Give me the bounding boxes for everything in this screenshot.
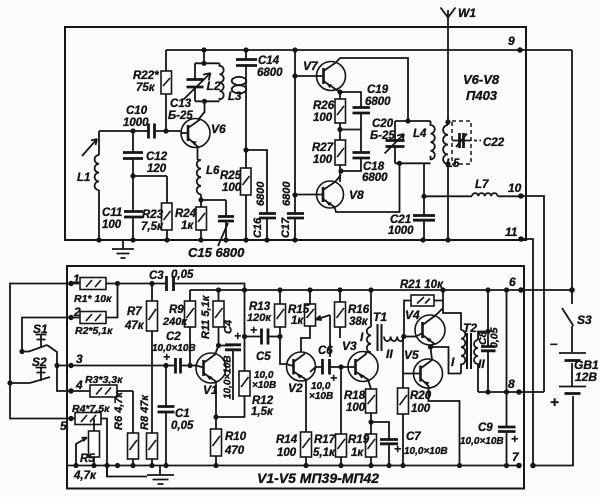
node dot R25 top bbox=[243, 147, 248, 152]
resistor R27 bbox=[335, 140, 346, 182]
svg-text:R11 5,1к: R11 5,1к bbox=[200, 294, 212, 339]
svg-text:6800: 6800 bbox=[365, 96, 391, 108]
capacitor C16 bbox=[246, 150, 276, 240]
svg-text:V3: V3 bbox=[342, 339, 357, 353]
svg-text:V5: V5 bbox=[404, 348, 419, 362]
svg-text:R22*: R22* bbox=[133, 70, 159, 82]
svg-text:10,0×10В: 10,0×10В bbox=[152, 343, 196, 354]
svg-text:R4*7,5к: R4*7,5к bbox=[72, 403, 110, 415]
svg-text:L3: L3 bbox=[228, 91, 242, 103]
node dot R7 top bbox=[149, 281, 154, 286]
svg-text:C11: C11 bbox=[102, 207, 122, 219]
svg-text:1,5к: 1,5к bbox=[251, 406, 274, 418]
capacitor C19 bbox=[340, 92, 370, 130]
capacitor C9 bbox=[498, 290, 516, 466]
capacitor C1 bbox=[158, 366, 175, 466]
svg-text:+: + bbox=[394, 442, 401, 456]
outer left rail bbox=[10, 284, 75, 419]
wire: node 10 down to node 8 bbox=[521, 196, 544, 392]
resistor R22 bbox=[161, 50, 172, 131]
svg-text:R5: R5 bbox=[80, 453, 95, 465]
transistor V4 bbox=[415, 313, 445, 347]
switch S3 bbox=[562, 290, 574, 352]
wire: terminal 2 to S1 column bbox=[22, 318, 71, 352]
AF unit enclosure box (bottom) bbox=[67, 266, 524, 489]
supply rail 6 (y=290) bbox=[190, 289, 521, 291]
svg-text:6800: 6800 bbox=[281, 181, 293, 206]
junction R11/rail 6 bbox=[216, 287, 221, 292]
node 7 bbox=[516, 463, 522, 469]
junction R20/rail 7 bbox=[400, 463, 405, 468]
resistor R6 bbox=[128, 433, 139, 466]
transistor V3 bbox=[348, 352, 378, 390]
svg-text:100: 100 bbox=[313, 154, 333, 166]
svg-text:120: 120 bbox=[147, 163, 167, 175]
svg-text:R24: R24 bbox=[175, 208, 197, 220]
svg-text:4: 4 bbox=[75, 378, 83, 392]
svg-text:0,05: 0,05 bbox=[171, 420, 194, 432]
node dot R27 bottom bbox=[338, 168, 343, 173]
node 8 bbox=[516, 389, 522, 395]
capacitor C22 (dashed) bbox=[452, 121, 481, 164]
junction rail 7 bbox=[115, 463, 120, 468]
transistor V6 bbox=[181, 119, 210, 161]
junction R13/rail 6 bbox=[277, 287, 282, 292]
wire: V7 collector to L4 tank top bbox=[340, 58, 408, 122]
svg-text:R27: R27 bbox=[312, 142, 334, 154]
svg-text:10,0×10В: 10,0×10В bbox=[460, 436, 504, 447]
wire: R4 to R5 and gnd link bbox=[101, 419, 107, 477]
junction R14/rail 7 bbox=[303, 463, 308, 468]
svg-text:1000: 1000 bbox=[388, 225, 414, 237]
node dot V1 collector / R11 bottom bbox=[216, 343, 221, 348]
node 11 bbox=[518, 236, 524, 242]
wire row 3 (input to V1 base) bbox=[57, 365, 196, 367]
junction R23/ground rail bbox=[164, 237, 169, 242]
wire: outer rail to S2 lever bbox=[10, 382, 30, 384]
svg-text:R23: R23 bbox=[142, 209, 164, 221]
node dot R9 bottom bbox=[187, 363, 192, 368]
junction C21/ground rail bbox=[420, 237, 425, 242]
svg-text:V8: V8 bbox=[349, 188, 364, 202]
svg-text:C19: C19 bbox=[367, 84, 389, 96]
transistor V7 bbox=[295, 58, 346, 92]
svg-text:C10: C10 bbox=[126, 105, 148, 117]
svg-text:C16: C16 bbox=[252, 217, 264, 238]
terminal dot 3 bbox=[68, 363, 73, 368]
node dot C12 bottom bbox=[130, 173, 135, 178]
svg-text:1к: 1к bbox=[351, 447, 364, 459]
junction C8/rail 6 bbox=[485, 287, 490, 292]
node dot 11-line on bottom rail bbox=[530, 463, 536, 469]
resistor R5 (trimmer) bbox=[76, 431, 100, 466]
svg-text:6800: 6800 bbox=[257, 67, 283, 79]
svg-text:1000: 1000 bbox=[123, 117, 149, 129]
svg-text:C13: C13 bbox=[170, 98, 192, 110]
svg-text:T1: T1 bbox=[373, 310, 387, 324]
node dot on rail at C17 bbox=[292, 47, 297, 52]
junction R10/rail 7 bbox=[213, 463, 218, 468]
svg-text:R19: R19 bbox=[348, 434, 370, 446]
junction C9/rail 7 bbox=[504, 463, 509, 468]
junction C15/ground rail bbox=[223, 237, 228, 242]
node dot V7 emitter bbox=[337, 89, 342, 94]
junction L1/ground rail bbox=[96, 237, 101, 242]
svg-text:T2: T2 bbox=[463, 321, 477, 335]
svg-text:V1-V5 МП39-МП42: V1-V5 МП39-МП42 bbox=[257, 470, 379, 486]
svg-text:470: 470 bbox=[224, 445, 245, 457]
node dot outer rail / S2 bbox=[7, 380, 12, 385]
ground symbol inside bottom box bbox=[107, 466, 174, 485]
node dot R1 right bbox=[115, 281, 120, 286]
svg-text:9: 9 bbox=[508, 34, 515, 48]
svg-text:–: – bbox=[550, 335, 558, 351]
svg-text:R25: R25 bbox=[220, 170, 242, 182]
wire: C10 / V6 base row y=131 bbox=[99, 130, 148, 132]
junction V5 emitter/rail 7 bbox=[457, 463, 462, 468]
node dot on rail at C14 bbox=[243, 47, 248, 52]
node dot V7 base bbox=[292, 73, 297, 78]
svg-text:100: 100 bbox=[313, 112, 333, 124]
junction L5/ground rail bbox=[445, 237, 450, 242]
svg-text:4,7к: 4,7к bbox=[73, 470, 97, 482]
capacitor C21 bbox=[413, 196, 435, 240]
svg-text:6800: 6800 bbox=[362, 172, 388, 184]
svg-text:C6: C6 bbox=[318, 345, 333, 357]
svg-text:0,05: 0,05 bbox=[489, 327, 501, 348]
svg-text:38к: 38к bbox=[349, 316, 369, 328]
svg-text:12В: 12В bbox=[575, 370, 597, 384]
svg-text:L7: L7 bbox=[475, 179, 489, 191]
svg-text:75к: 75к bbox=[136, 82, 156, 94]
svg-text:W1: W1 bbox=[458, 6, 476, 20]
inductor L1 with ferrite arrow bbox=[82, 131, 99, 240]
junction R24/ground rail bbox=[198, 237, 203, 242]
svg-text:11: 11 bbox=[505, 225, 518, 239]
svg-text:100: 100 bbox=[277, 447, 297, 459]
bottom ground rail (7) bbox=[67, 465, 519, 467]
capacitor C5 bbox=[245, 336, 262, 338]
transistor V1 bbox=[196, 346, 226, 418]
junction R15/rail 6 bbox=[307, 287, 312, 292]
inductor L6 bbox=[197, 160, 201, 200]
transistor V5 bbox=[414, 347, 460, 466]
inductor L3 bbox=[232, 75, 247, 150]
resistor R18 bbox=[366, 389, 377, 434]
svg-text:R6 4,7к: R6 4,7к bbox=[113, 391, 125, 430]
tank circuit L4 / C20 bbox=[385, 121, 435, 163]
capacitor C7 bbox=[371, 422, 398, 466]
terminal dot 5 bbox=[68, 416, 73, 421]
node dot C5 row left bbox=[242, 334, 247, 339]
transistor V8 bbox=[295, 163, 400, 212]
junction C9/rail 6 bbox=[504, 287, 509, 292]
battery GB1 bbox=[533, 353, 586, 466]
wire: top supply rail (9) y=50 bbox=[166, 49, 572, 51]
capacitor C18 bbox=[341, 130, 370, 172]
svg-text:10,0×10В: 10,0×10В bbox=[404, 446, 448, 457]
node dot on rail at L2 tank bbox=[201, 47, 206, 52]
resistor R19 bbox=[366, 434, 377, 466]
svg-text:C22: C22 bbox=[483, 137, 505, 149]
svg-text:R9: R9 bbox=[169, 304, 184, 316]
node dot L2 tank top bbox=[201, 61, 206, 66]
node dot T1 secondary bbox=[401, 334, 406, 339]
wire: S-block output column bbox=[47, 345, 71, 391]
svg-text:S1: S1 bbox=[33, 322, 48, 336]
wire: T1 II node to V5 base bbox=[403, 337, 414, 374]
svg-text:C1: C1 bbox=[175, 408, 190, 420]
node dot C8 bottom bbox=[485, 389, 490, 394]
svg-text:C12: C12 bbox=[146, 151, 168, 163]
node dot C10/C12/L1 bbox=[130, 128, 135, 133]
svg-text:1к: 1к bbox=[181, 220, 194, 232]
svg-text:R21 10к: R21 10к bbox=[400, 279, 444, 291]
junction R17/rail 7 bbox=[338, 463, 343, 468]
svg-text:R8 47к: R8 47к bbox=[139, 394, 151, 430]
svg-text:II: II bbox=[478, 357, 485, 371]
svg-text:R18: R18 bbox=[344, 390, 366, 402]
wire: L4 bottom to C21 bbox=[423, 163, 425, 196]
wire: input row 1 (R1/C3) y=283 bbox=[71, 284, 245, 291]
svg-text:П403: П403 bbox=[466, 88, 498, 103]
resistor R26 bbox=[335, 92, 346, 140]
junction T1 primary/rail 6 bbox=[368, 287, 373, 292]
svg-text:V7: V7 bbox=[303, 59, 319, 73]
svg-text:R20: R20 bbox=[410, 390, 432, 402]
resistor R3 bbox=[71, 385, 133, 397]
node dot R18/R19 bbox=[368, 419, 373, 424]
svg-text:C15 6800: C15 6800 bbox=[188, 245, 245, 260]
node dot C9 line crossing row 8 bbox=[504, 389, 509, 394]
resistor R23 bbox=[133, 176, 172, 240]
antenna W1 bbox=[441, 8, 456, 123]
junction ground link/rail 7 bbox=[104, 463, 109, 468]
resistor R17 bbox=[336, 367, 347, 466]
svg-text:100: 100 bbox=[411, 403, 431, 415]
svg-text:L4: L4 bbox=[413, 128, 427, 140]
junction T2 primary/rail 6 bbox=[440, 287, 445, 292]
svg-text:C4: C4 bbox=[223, 320, 235, 334]
capacitor C3 bbox=[167, 276, 174, 291]
svg-text:L2: L2 bbox=[207, 79, 221, 93]
node dot V8 base bbox=[292, 192, 297, 197]
capacitor C6 bbox=[323, 359, 330, 375]
svg-text:6: 6 bbox=[509, 275, 516, 289]
junction R16/rail 6 bbox=[337, 287, 342, 292]
terminal dot 1 bbox=[68, 281, 73, 286]
node dot midpoint bbox=[428, 344, 433, 349]
wire: V4/V5 midpoint to T2 primary bottom bbox=[430, 347, 461, 374]
svg-text:+: + bbox=[330, 371, 337, 385]
RF unit enclosure box (top) bbox=[65, 27, 526, 240]
inductor L7 bbox=[424, 193, 521, 196]
junction C11/ground rail bbox=[130, 237, 135, 242]
resistor R20 bbox=[398, 374, 409, 466]
node dot T2 secondary top on C8 line bbox=[485, 329, 490, 334]
svg-text:47к: 47к bbox=[124, 320, 145, 332]
junction C3 column/rail 6 bbox=[242, 287, 247, 292]
svg-text:×10В: ×10В bbox=[252, 380, 276, 391]
svg-text:10,0×10В: 10,0×10В bbox=[223, 355, 234, 399]
svg-text:C9: C9 bbox=[478, 422, 493, 434]
resistor R21 bbox=[404, 295, 443, 337]
capacitor C14 bbox=[236, 50, 257, 75]
node dot R26/R27 bbox=[337, 127, 342, 132]
svg-text:L1: L1 bbox=[77, 172, 90, 184]
svg-text:V6-V8: V6-V8 bbox=[463, 72, 500, 87]
capacitor C12 bbox=[123, 131, 143, 176]
capacitor C15 bbox=[201, 200, 234, 240]
resistor R2 bbox=[71, 312, 106, 324]
resistor R13 bbox=[275, 290, 286, 337]
svg-text:0,05: 0,05 bbox=[171, 269, 194, 281]
wire: R13 bottom to V2 base bbox=[280, 337, 286, 365]
wire: C3 column down through rail to C5 row bbox=[244, 290, 246, 337]
junction C16/ground rail bbox=[264, 237, 269, 242]
node 6 bbox=[518, 287, 524, 293]
junction R6/rail 7 bbox=[130, 463, 135, 468]
wire: R1 to R2 join bbox=[106, 284, 118, 318]
wire: node 9 to S3 column bbox=[571, 50, 573, 290]
node dot V3 base / R17 bbox=[338, 364, 343, 369]
svg-text:V6: V6 bbox=[211, 122, 226, 136]
switch S2 bbox=[30, 368, 50, 384]
junction R25/ground rail bbox=[243, 237, 248, 242]
svg-text:100: 100 bbox=[102, 219, 122, 231]
svg-text:C3: C3 bbox=[149, 270, 164, 282]
switch S1 bbox=[22, 335, 47, 352]
node dot V1 emitter / R12 bbox=[213, 414, 218, 419]
resistor R9 bbox=[185, 290, 196, 366]
svg-text:240к: 240к bbox=[162, 316, 188, 328]
capacitor C8 bbox=[481, 290, 496, 392]
junction C7/rail 7 bbox=[386, 463, 391, 468]
wire: node 11 down to bottom rail bbox=[521, 239, 533, 466]
svg-text:3: 3 bbox=[76, 352, 83, 366]
svg-text:100: 100 bbox=[222, 182, 242, 194]
resistor R16 bbox=[335, 290, 346, 338]
inductor L5 bbox=[443, 122, 448, 240]
svg-text:7,5к: 7,5к bbox=[141, 221, 164, 233]
svg-text:+: + bbox=[511, 432, 518, 446]
transformer T2 bbox=[461, 330, 488, 392]
svg-text:C5: C5 bbox=[256, 351, 271, 363]
svg-text:R2*5,1к: R2*5,1к bbox=[75, 325, 113, 337]
wire: T1 II to V4 base bbox=[404, 336, 416, 338]
capacitor C17 bbox=[287, 50, 304, 240]
svg-text:10: 10 bbox=[508, 181, 522, 195]
node dot L2 tank bottom bbox=[202, 99, 207, 104]
resistor R12 bbox=[216, 337, 250, 418]
transformer T1 bbox=[366, 290, 404, 352]
svg-text:C2: C2 bbox=[166, 331, 181, 343]
svg-text:S3: S3 bbox=[577, 313, 592, 327]
svg-text:R10: R10 bbox=[225, 431, 247, 443]
resistor R8 bbox=[147, 366, 158, 466]
node 10 bbox=[518, 193, 524, 199]
svg-text:+: + bbox=[550, 394, 559, 411]
ground symbol below top box bbox=[112, 240, 134, 258]
transistor V2 bbox=[286, 352, 323, 432]
svg-text:L6: L6 bbox=[206, 165, 220, 177]
svg-text:C14: C14 bbox=[258, 55, 280, 67]
resistor R4 bbox=[75, 413, 101, 425]
svg-text:II: II bbox=[386, 347, 393, 361]
svg-text:R3*3,3к: R3*3,3к bbox=[85, 374, 123, 386]
node dot L6 bottom bbox=[198, 197, 203, 202]
trimmer arrow into R15 bbox=[316, 315, 330, 320]
resistor R24 bbox=[196, 200, 207, 240]
node dot L5 bottom bbox=[445, 161, 450, 166]
resistor R1 bbox=[80, 278, 106, 290]
svg-text:×10В: ×10В bbox=[309, 391, 333, 402]
resistor R10 bbox=[211, 417, 222, 466]
node dot antenna/L5 top bbox=[445, 119, 450, 124]
svg-text:+: + bbox=[250, 323, 257, 337]
junction R5 wiper/rail 7 bbox=[73, 463, 78, 468]
junction C1/rail 7 bbox=[163, 463, 168, 468]
resistor R15 bbox=[301, 290, 316, 352]
svg-text:+: + bbox=[163, 350, 170, 364]
svg-text:C8: C8 bbox=[477, 331, 489, 345]
svg-text:100: 100 bbox=[346, 402, 366, 414]
resistor R11 bbox=[213, 290, 224, 346]
capacitor C11 bbox=[124, 176, 143, 240]
svg-text:C7: C7 bbox=[406, 431, 421, 443]
node dot L4 bottom / V8 emitter riser bbox=[397, 161, 402, 166]
node dot C1 top bbox=[163, 363, 168, 368]
wire: row4 down to R6 bbox=[132, 391, 134, 433]
svg-text:8: 8 bbox=[508, 377, 515, 391]
terminal dot 4 bbox=[68, 388, 73, 393]
svg-text:1к: 1к bbox=[291, 315, 304, 327]
resistor R14 bbox=[301, 432, 312, 466]
tank circuit L2 / C13 bbox=[184, 50, 224, 120]
svg-text:R1* 10к: R1* 10к bbox=[74, 293, 112, 305]
svg-text:5: 5 bbox=[60, 419, 67, 433]
wire row 8 bbox=[478, 391, 544, 393]
svg-text:C20: C20 bbox=[372, 118, 394, 130]
svg-text:1: 1 bbox=[73, 272, 80, 286]
capacitor C2 bbox=[176, 358, 181, 374]
svg-text:V1: V1 bbox=[203, 383, 218, 397]
junction R19/rail 7 bbox=[368, 463, 373, 468]
svg-text:C17: C17 bbox=[280, 217, 292, 238]
svg-text:R7: R7 bbox=[127, 306, 142, 318]
node dot R13 bottom bbox=[277, 334, 282, 339]
resistor R7 bbox=[147, 284, 158, 366]
svg-text:R14: R14 bbox=[276, 434, 298, 446]
node dot wire3 on S column bbox=[54, 363, 59, 368]
svg-text:S2: S2 bbox=[32, 355, 47, 369]
capacitor C10 bbox=[149, 124, 155, 139]
capacitor C4 bbox=[219, 345, 242, 400]
svg-text:5,1к: 5,1к bbox=[313, 447, 336, 459]
junction R8/rail 7 bbox=[149, 463, 154, 468]
svg-text:R26: R26 bbox=[313, 100, 335, 112]
node 9 dot at box edge bbox=[517, 47, 523, 53]
svg-text:6800: 6800 bbox=[255, 181, 267, 206]
junction R5/rail 7 bbox=[91, 463, 96, 468]
resistor R25 bbox=[241, 150, 252, 240]
node dot R22 bottom bbox=[163, 128, 168, 133]
svg-text:V2: V2 bbox=[288, 381, 303, 395]
svg-text:V4: V4 bbox=[405, 308, 420, 322]
node dot at S3 top bbox=[569, 287, 575, 293]
svg-text:R17: R17 bbox=[314, 434, 336, 446]
node dot L4 top bbox=[405, 118, 410, 123]
